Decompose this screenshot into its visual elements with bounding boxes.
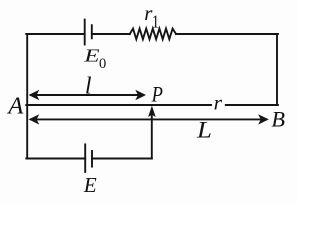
label r: [214, 91, 223, 115]
svg-text:B: B: [271, 106, 285, 131]
svg-text:l: l: [85, 74, 92, 100]
label B: [271, 106, 285, 131]
wire right vertical: [276, 34, 278, 105]
wire left vertical: [26, 34, 28, 159]
wire top-left segment: [26, 33, 84, 35]
wire jockey vertical: [151, 113, 153, 159]
svg-text:L: L: [196, 118, 212, 143]
battery E0 short plate: [91, 25, 93, 38]
label E: [83, 173, 97, 197]
svg-text:A: A: [6, 92, 24, 119]
wire battery E to jockey: [92, 158, 152, 160]
wire battery E0 to resistor r1: [93, 33, 130, 35]
resistor r1: [130, 29, 176, 40]
svg-text:E: E: [83, 173, 97, 197]
svg-text:1: 1: [152, 11, 159, 32]
label P: [151, 83, 163, 107]
label E0: [83, 46, 99, 66]
arrow L shaft: [31, 118, 266, 120]
wire r to right vertical: [226, 104, 278, 106]
wire A to r: [26, 104, 211, 106]
svg-text:E: E: [83, 46, 99, 66]
label r1: [144, 1, 153, 25]
battery E0 long plate: [84, 20, 86, 45]
label l: [85, 74, 92, 100]
svg-text:P: P: [151, 83, 163, 107]
label L: [196, 118, 212, 143]
svg-text:0: 0: [99, 56, 106, 72]
svg-text:r: r: [214, 91, 223, 115]
arrow l shaft: [31, 94, 143, 96]
battery E short plate: [91, 151, 93, 167]
arrowhead L right: [258, 114, 269, 124]
arrowhead l left: [29, 90, 40, 100]
label A: [6, 92, 24, 119]
arrowhead jockey up: [148, 106, 156, 117]
arrowhead l right: [135, 90, 146, 100]
arrowhead L left: [29, 114, 40, 124]
battery E long plate: [84, 144, 86, 172]
wire top-right segment: [176, 33, 278, 35]
wire bottom-left segment: [26, 158, 85, 160]
